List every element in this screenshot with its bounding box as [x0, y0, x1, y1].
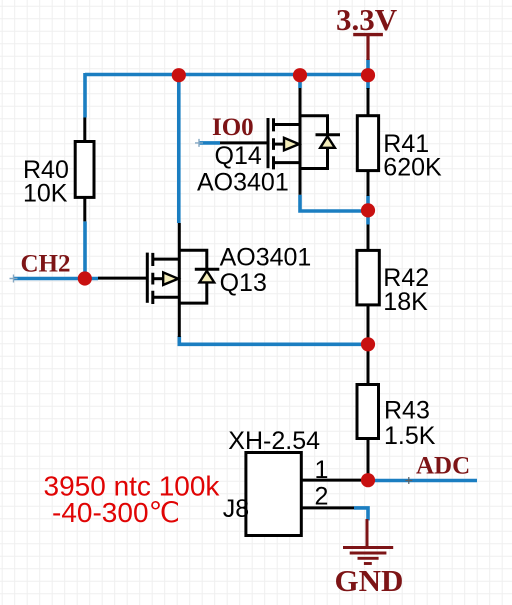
- source lead top: [153, 258, 180, 261]
- svg-text:XH-2.54: XH-2.54: [228, 427, 320, 455]
- wire IO0 to Q14 gate: [199, 141, 220, 145]
- svg-text:2: 2: [315, 483, 329, 511]
- wire end marker CH2: [10, 275, 18, 283]
- main vertical: [299, 88, 302, 195]
- svg-text:18K: 18K: [383, 288, 428, 316]
- svg-text:3.3V: 3.3V: [336, 2, 398, 37]
- wire Q14 drain to node D4: [300, 195, 368, 211]
- node Q14 source junction: [293, 68, 307, 82]
- arrow triangle Q14: [284, 138, 299, 151]
- diode triangle Q14: [320, 136, 335, 148]
- gate line: [267, 118, 270, 168]
- wire R41 top stub: [366, 59, 370, 89]
- power 3.3V symbol: [353, 35, 383, 60]
- svg-text:Q14: Q14: [215, 142, 262, 170]
- arrow lead: [274, 143, 286, 146]
- node CH2 junction: [78, 271, 92, 285]
- wire R41 bottom stub: [366, 196, 370, 225]
- node ADC junction: [361, 473, 375, 487]
- wire mid vertical rail to Q13 drain: [177, 73, 181, 223]
- diode triangle Q13: [200, 271, 215, 283]
- resistor R40: [75, 118, 94, 222]
- wire left vertical to R40: [83, 73, 87, 118]
- svg-text:1.5K: 1.5K: [384, 422, 436, 450]
- arrow triangle Q13: [163, 272, 178, 285]
- channel bars: [272, 118, 275, 169]
- svg-text:CH2: CH2: [21, 250, 71, 277]
- svg-text:Q13: Q13: [220, 269, 267, 297]
- svg-text:GND: GND: [335, 563, 404, 598]
- node R42-R43 junction: [361, 337, 375, 351]
- gate lead: [98, 277, 147, 280]
- body diode branch: [179, 250, 207, 303]
- svg-text:620K: 620K: [383, 154, 442, 182]
- resistor R41: [357, 88, 378, 196]
- wire top rail 3.3V: [85, 73, 368, 77]
- source lead top: [274, 123, 301, 126]
- drain lead bottom: [274, 161, 301, 164]
- svg-text:10K: 10K: [23, 180, 68, 208]
- channel bars: [151, 253, 154, 304]
- resistor R42: [357, 225, 379, 342]
- wire Q14 source stub: [298, 75, 302, 89]
- wire end marker ADC: [405, 477, 412, 484]
- gate line: [146, 253, 149, 303]
- wire J8 pin2 to GND: [354, 508, 368, 521]
- drain lead bottom: [153, 296, 180, 299]
- pin 2: [301, 506, 354, 509]
- svg-text:AO3401: AO3401: [220, 244, 312, 272]
- node 3.3V junction: [361, 68, 375, 82]
- wire end marker IO0: [195, 139, 203, 147]
- svg-text:ADC: ADC: [416, 453, 470, 480]
- svg-text:AO3401: AO3401: [197, 169, 289, 197]
- wire Q13 drain down to node D6: [179, 336, 368, 344]
- ground symbol GND: [343, 519, 393, 564]
- diode cathode bar: [195, 268, 220, 271]
- wire ADC horizontal: [368, 479, 477, 483]
- body diode branch: [300, 116, 328, 169]
- svg-text:R43: R43: [384, 397, 430, 425]
- main vertical: [178, 223, 181, 337]
- node R41-R42 junction: [361, 203, 375, 217]
- connector J8 XH-2.54: [246, 453, 361, 536]
- gate lead: [220, 141, 268, 144]
- wire CH2 horizontal: [13, 277, 98, 281]
- arrow lead: [153, 277, 164, 280]
- svg-text:1: 1: [315, 456, 329, 484]
- transistor Q14 AO3401: [220, 88, 340, 195]
- diode cathode bar: [316, 133, 341, 136]
- svg-text:-40-300℃: -40-300℃: [52, 497, 180, 528]
- svg-text:IO0: IO0: [212, 114, 254, 141]
- transistor Q13 AO3401: [98, 223, 219, 337]
- pin 1: [301, 479, 361, 482]
- wire R40 bottom to CH2 node: [83, 221, 87, 278]
- svg-text:J8: J8: [223, 495, 249, 523]
- node top-left junction: [172, 68, 186, 82]
- resistor R43: [357, 351, 379, 474]
